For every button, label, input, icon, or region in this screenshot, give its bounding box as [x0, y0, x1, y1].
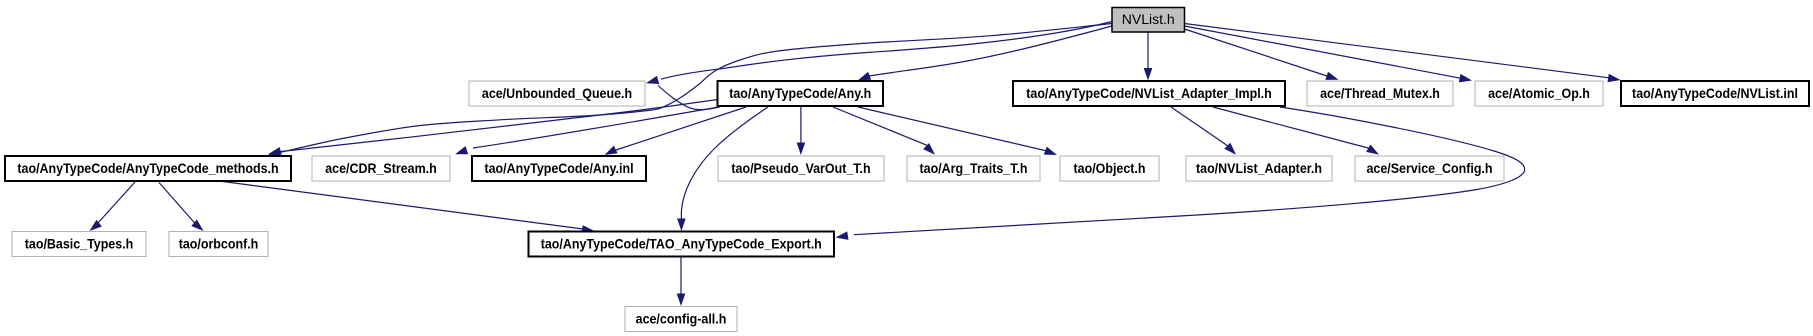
node ace/CDR_Stream.h	[312, 156, 450, 181]
wire tao/AnyTypeCode/NVList_Adapter_Impl.h -> ace/Service_Config.h	[1213, 107, 1379, 155]
node tao/Basic_Types.h	[12, 232, 146, 257]
svg-text:ace/CDR_Stream.h: ace/CDR_Stream.h	[325, 160, 437, 176]
wire tao/AnyTypeCode/AnyTypeCode_methods.h -> tao/Basic_Types.h	[90, 182, 136, 231]
node tao/AnyTypeCode/Any.inl	[472, 156, 646, 181]
node tao/orbconf.h	[169, 232, 268, 257]
node tao/AnyTypeCode/NVList.inl	[1621, 81, 1809, 106]
svg-text:NVList.h: NVList.h	[1122, 11, 1175, 27]
wire tao/AnyTypeCode/Any.h -> tao/AnyTypeCode/AnyTypeCode_methods.h	[269, 100, 718, 156]
wire tao/AnyTypeCode/NVList_Adapter_Impl.h -> tao/NVList_Adapter.h	[1171, 107, 1236, 155]
wire tao/AnyTypeCode/Any.h -> ace/Unbounded_Queue.h	[658, 86, 720, 110]
node tao/AnyTypeCode/TAO_AnyTypeCode_Export.h	[529, 232, 835, 257]
node ace/config-all.h	[625, 307, 737, 332]
wire tao/AnyTypeCode/Any.h -> tao/AnyTypeCode/Any.inl	[605, 107, 747, 155]
node ace/Thread_Mutex.h	[1307, 81, 1453, 106]
svg-text:tao/Pseudo_VarOut_T.h: tao/Pseudo_VarOut_T.h	[731, 160, 870, 176]
wire NVList.h -> ace/Thread_Mutex.h	[1185, 29, 1339, 80]
svg-text:tao/orbconf.h: tao/orbconf.h	[179, 235, 259, 251]
wire tao/AnyTypeCode/Any.h -> ace/CDR_Stream.h	[455, 107, 719, 154]
node tao/Arg_Traits_T.h	[907, 156, 1040, 181]
wire tao/AnyTypeCode/AnyTypeCode_methods.h -> tao/AnyTypeCode/TAO_AnyTypeCode_Export.h	[219, 181, 595, 234]
svg-text:tao/AnyTypeCode/Any.inl: tao/AnyTypeCode/Any.inl	[484, 160, 633, 176]
node ace/Service_Config.h	[1355, 156, 1504, 181]
svg-text:ace/Atomic_Op.h: ace/Atomic_Op.h	[1488, 85, 1590, 101]
svg-text:tao/NVList_Adapter.h: tao/NVList_Adapter.h	[1196, 160, 1322, 176]
svg-text:tao/AnyTypeCode/Any.h: tao/AnyTypeCode/Any.h	[729, 85, 871, 101]
wire tao/AnyTypeCode/NVList_Adapter_Impl.h -> tao/AnyTypeCode/TAO_AnyTypeCode_Export.h	[836, 107, 1525, 240]
node tao/NVList_Adapter.h	[1186, 156, 1332, 181]
wire NVList.h -> tao/AnyTypeCode/Any.h	[858, 26, 1112, 80]
svg-text:tao/AnyTypeCode/TAO_AnyTypeCod: tao/AnyTypeCode/TAO_AnyTypeCode_Export.h	[541, 235, 822, 251]
svg-text:tao/Arg_Traits_T.h: tao/Arg_Traits_T.h	[920, 160, 1028, 176]
node tao/Object.h	[1060, 156, 1159, 181]
wire tao/AnyTypeCode/AnyTypeCode_methods.h -> tao/orbconf.h	[159, 183, 204, 232]
node tao/Pseudo_VarOut_T.h	[718, 156, 884, 181]
node tao/AnyTypeCode/AnyTypeCode_methods.h	[5, 156, 291, 181]
svg-text:tao/Object.h: tao/Object.h	[1074, 160, 1146, 176]
wire NVList.h -> tao/AnyTypeCode/AnyTypeCode_methods.h	[268, 24, 1112, 157]
node ace/Atomic_Op.h	[1475, 81, 1603, 106]
svg-text:ace/Unbounded_Queue.h: ace/Unbounded_Queue.h	[482, 85, 632, 101]
wire NVList.h -> tao/AnyTypeCode/NVList.inl	[1185, 24, 1621, 83]
node NVList.h	[1112, 8, 1185, 33]
node tao/AnyTypeCode/NVList_Adapter_Impl.h	[1013, 81, 1285, 106]
wire tao/AnyTypeCode/Any.h -> tao/Arg_Traits_T.h	[833, 107, 935, 155]
svg-text:ace/config-all.h: ace/config-all.h	[636, 310, 727, 326]
wire NVList.h -> ace/Atomic_Op.h	[1185, 26, 1473, 82]
svg-text:ace/Thread_Mutex.h: ace/Thread_Mutex.h	[1320, 85, 1440, 101]
svg-text:ace/Service_Config.h: ace/Service_Config.h	[1367, 160, 1493, 176]
svg-text:tao/AnyTypeCode/AnyTypeCode_me: tao/AnyTypeCode/AnyTypeCode_methods.h	[17, 160, 278, 176]
node tao/AnyTypeCode/Any.h	[718, 81, 884, 106]
wire NVList.h -> tao/AnyTypeCode/NVList_Adapter_Impl.h	[1144, 32, 1153, 81]
wire tao/AnyTypeCode/Any.h -> tao/Object.h	[858, 107, 1057, 155]
wire NVList.h -> ace/Unbounded_Queue.h	[646, 22, 1112, 85]
node ace/Unbounded_Queue.h	[469, 81, 645, 106]
wire tao/AnyTypeCode/Any.h -> tao/Pseudo_VarOut_T.h	[797, 107, 806, 155]
svg-text:tao/Basic_Types.h: tao/Basic_Types.h	[25, 235, 134, 251]
wire tao/AnyTypeCode/TAO_AnyTypeCode_Export.h -> ace/config-all.h	[677, 257, 686, 306]
svg-text:tao/AnyTypeCode/NVList_Adapter: tao/AnyTypeCode/NVList_Adapter_Impl.h	[1026, 85, 1272, 101]
svg-text:tao/AnyTypeCode/NVList.inl: tao/AnyTypeCode/NVList.inl	[1632, 85, 1798, 101]
wire tao/AnyTypeCode/Any.h -> tao/AnyTypeCode/TAO_AnyTypeCode_Export.h	[677, 107, 768, 231]
